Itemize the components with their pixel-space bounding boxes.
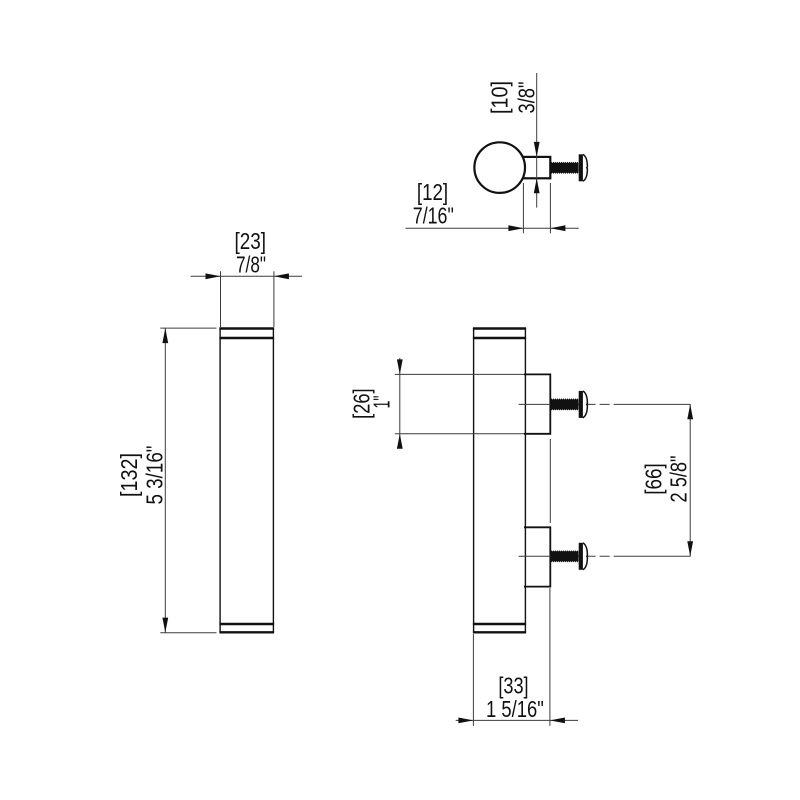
dim [132] arrows: [162, 328, 168, 632]
svg-text:7/16": 7/16": [413, 203, 454, 229]
screw centerlines: [519, 404, 695, 556]
svg-text:[66]: [66]: [641, 463, 667, 495]
svg-text:1": 1": [368, 396, 394, 409]
dim [10] arrows: [534, 142, 540, 193]
dim [12] ext lines: [406, 183, 579, 233]
svg-text:5 3/16": 5 3/16": [142, 446, 168, 505]
dim [33] ext lines: [456, 588, 578, 726]
svg-text:[10]: [10]: [486, 81, 512, 114]
dim [23] ext+line: [191, 271, 302, 327]
dim [23] arrows: [206, 273, 289, 279]
screw lower: [550, 543, 587, 570]
dim [10] line: [536, 73, 538, 208]
svg-text:1 5/16": 1 5/16": [486, 696, 544, 722]
svg-text:[12]: [12]: [417, 179, 448, 205]
post edge line between posts: [549, 439, 551, 523]
svg-text:2 5/8": 2 5/8": [666, 456, 692, 503]
svg-text:[33]: [33]: [498, 673, 528, 699]
knob neck: [521, 157, 550, 178]
knob ball: [474, 142, 525, 193]
dim [26] ext lines: [395, 358, 524, 449]
lower post: [524, 526, 550, 587]
dim [26] arrows: [397, 359, 403, 448]
dim [132] ext+line: [160, 328, 216, 633]
dim [66] arrows: [687, 404, 693, 556]
handle bar front: [219, 328, 274, 633]
screw top: [550, 154, 587, 181]
svg-text:3/8": 3/8": [514, 82, 540, 114]
screw upper: [550, 391, 587, 418]
dim [12] arrows: [508, 225, 565, 231]
dim [66] line: [689, 404, 691, 556]
svg-text:[23]: [23]: [235, 228, 267, 254]
svg-text:[132]: [132]: [116, 453, 142, 497]
handle bar side: [473, 328, 526, 633]
svg-text:7/8": 7/8": [236, 252, 266, 278]
dim [33] arrows: [458, 718, 565, 724]
upper post: [524, 374, 550, 435]
